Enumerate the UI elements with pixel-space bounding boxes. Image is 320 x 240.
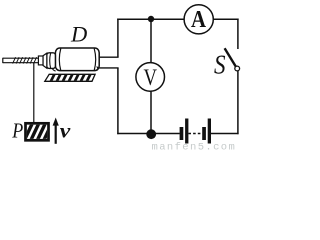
- svg-text:S: S: [214, 50, 226, 80]
- battery cell 2 long plate: [208, 119, 211, 144]
- screw rod top line: [3, 57, 39, 59]
- motor collar: [38, 56, 43, 65]
- wire voltmeter branch lower: [150, 91, 152, 135]
- screw rod left end: [2, 58, 4, 63]
- motor body right end arc: [94, 49, 96, 71]
- motor right foot: [97, 67, 98, 71]
- node junction dot top: [148, 16, 154, 22]
- weight P box: [26, 123, 49, 140]
- motor bottom terminal wire: [98, 67, 119, 69]
- motor chuck cone: [43, 53, 47, 68]
- motor D body: [55, 48, 99, 71]
- motor body left end arc: [59, 49, 61, 71]
- battery cell 1 long plate: [185, 119, 188, 144]
- motor cap inner arc: [49, 53, 52, 68]
- wire left vertical upper (to motor top terminal): [117, 19, 119, 58]
- screw rod bottom line: [3, 62, 39, 64]
- wire dashed between battery cells: [188, 133, 202, 135]
- wire voltmeter branch upper: [150, 19, 152, 63]
- wire right vertical lower (switch pivot to bottom wire): [237, 71, 239, 135]
- velocity arrow head: [53, 118, 59, 126]
- motor base platform: [45, 74, 95, 81]
- motor left foot: [52, 69, 55, 72]
- weight P hatching: [24, 124, 52, 141]
- screw rod threads: [13, 57, 37, 63]
- switch S blade: [225, 48, 236, 67]
- battery cell 1 short plate: [180, 127, 184, 140]
- wire top horizontal: [117, 18, 238, 20]
- wire bottom left segment: [117, 133, 180, 135]
- wire right vertical upper (to switch contact): [237, 19, 239, 50]
- svg-text:P: P: [11, 118, 23, 142]
- svg-text:V: V: [143, 65, 157, 90]
- battery cell 2 short plate: [202, 127, 206, 140]
- switch S pivot circle: [235, 66, 240, 71]
- wire bottom right segment: [211, 133, 239, 135]
- motor base hatching: [50, 73, 97, 83]
- svg-text:D: D: [70, 22, 87, 47]
- ammeter A1 circle: [184, 5, 213, 34]
- svg-text:A: A: [191, 6, 206, 33]
- node junction dot bottom: [146, 129, 156, 139]
- voltmeter V1 circle: [136, 63, 165, 92]
- svg-text:manfen5.com: manfen5.com: [152, 142, 237, 152]
- string from rod to weight: [33, 63, 35, 123]
- motor left end cap: [47, 53, 56, 69]
- svg-text:v: v: [60, 121, 72, 143]
- motor top terminal wire: [99, 56, 119, 58]
- wire left vertical lower (motor bottom terminal to bottom wire): [117, 68, 119, 134]
- velocity arrow shaft: [55, 125, 57, 144]
